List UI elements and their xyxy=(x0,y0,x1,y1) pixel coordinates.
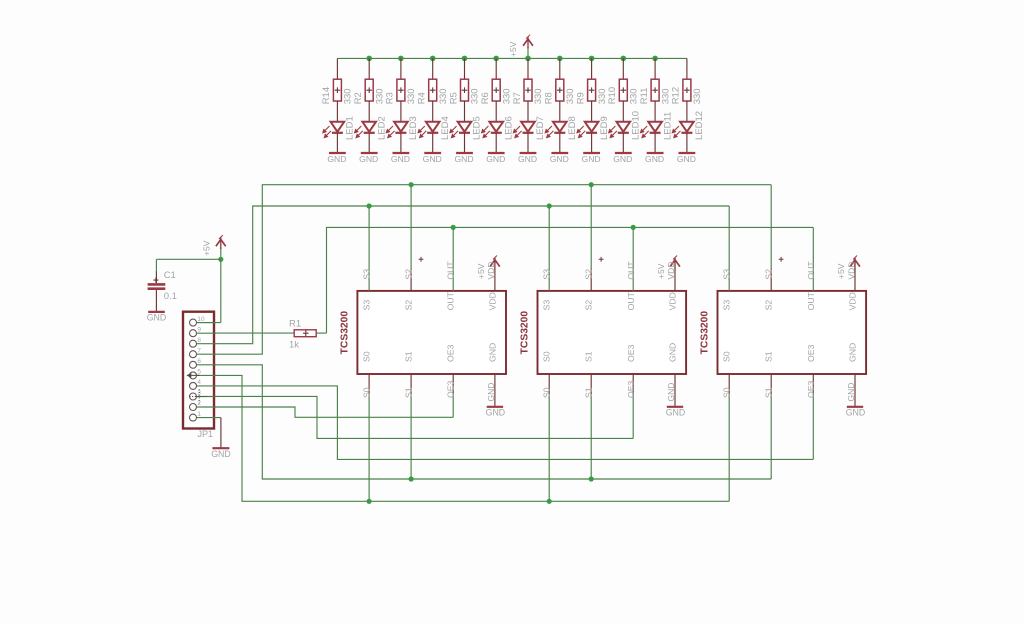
junction rail col9 xyxy=(589,56,595,62)
junction S3 bus U1 xyxy=(367,203,372,208)
pin OE3 stub U2 xyxy=(632,374,634,395)
svg-text:LED7: LED7 xyxy=(535,116,546,140)
svg-text:330: 330 xyxy=(501,88,512,104)
pin S2 stub U1 xyxy=(410,269,412,291)
pin S1 stub U2 xyxy=(590,374,592,395)
svg-text:S3: S3 xyxy=(542,269,552,280)
+5V supply symbol (U2 VDD) xyxy=(670,256,680,270)
svg-text:LED10: LED10 xyxy=(631,111,642,140)
ground GND (LED6) xyxy=(488,152,505,154)
wire S0 net U2 xyxy=(548,395,550,501)
svg-text:R14: R14 xyxy=(321,87,332,104)
svg-text:5: 5 xyxy=(197,369,201,376)
wire S1 net U3 xyxy=(770,395,772,479)
svg-text:S1: S1 xyxy=(764,351,774,362)
wire JP1 pin9 stub xyxy=(197,332,216,334)
LED LED6 xyxy=(482,122,504,138)
svg-text:S0: S0 xyxy=(542,387,552,398)
LED LED12 xyxy=(672,122,693,138)
svg-text:S0: S0 xyxy=(542,351,552,362)
wire LED8 to GND xyxy=(559,133,561,152)
junction rail col11 xyxy=(652,56,658,62)
svg-text:R4: R4 xyxy=(417,92,428,104)
LED LED7 xyxy=(513,122,534,138)
svg-text:R10: R10 xyxy=(607,87,618,104)
resistor R8 330 xyxy=(556,79,564,101)
pin cross marker S2 U1 xyxy=(419,257,424,262)
svg-text:R3: R3 xyxy=(385,92,396,104)
wire rail to R5 xyxy=(464,58,466,79)
wire rail to R12 xyxy=(686,58,688,79)
junction rail col8 xyxy=(557,56,563,62)
wire JP1 pin3 stub xyxy=(197,396,216,398)
svg-text:GND: GND xyxy=(454,154,473,164)
pin VDD stub U3 xyxy=(854,268,856,291)
svg-text:S1: S1 xyxy=(404,387,414,398)
svg-text:S3: S3 xyxy=(722,300,732,311)
svg-text:S3: S3 xyxy=(362,300,372,311)
pin S0 stub U1 xyxy=(368,374,370,395)
wire S3 pin U1 xyxy=(368,206,370,291)
wire LED10 to GND xyxy=(622,133,624,152)
pin S2 stub U3 xyxy=(770,269,772,291)
wire JP1 pin8 stub xyxy=(197,343,216,345)
wire JP1 pin6 stub xyxy=(197,364,216,366)
junction rail col7 xyxy=(525,56,531,62)
svg-text:GND: GND xyxy=(486,408,506,418)
svg-text:GND: GND xyxy=(677,154,696,164)
wire C1 top lead xyxy=(155,272,157,284)
pin GND stub U1 xyxy=(494,374,496,407)
wire +5V stub xyxy=(527,47,529,58)
pin S0 stub U3 xyxy=(728,374,730,395)
wire LED7 to GND xyxy=(527,133,529,152)
svg-text:LED5: LED5 xyxy=(472,116,483,140)
wire S1 net U2 xyxy=(590,395,592,479)
svg-text:OE3: OE3 xyxy=(446,380,456,398)
wire R3 to LED3 xyxy=(400,101,402,121)
svg-text:OUT: OUT xyxy=(806,261,816,280)
svg-text:+5V: +5V xyxy=(656,263,666,279)
svg-text:LED1: LED1 xyxy=(345,116,356,140)
svg-text:GND: GND xyxy=(848,343,858,362)
LED LED9 xyxy=(577,122,598,138)
JP1 pin 3 pad xyxy=(190,393,197,400)
svg-text:R12: R12 xyxy=(671,87,682,104)
wire S0 net U3 xyxy=(728,395,730,501)
ground GND (U3) xyxy=(847,406,863,408)
wire LED2 to GND xyxy=(368,133,370,152)
wire rail to R14 xyxy=(336,58,338,79)
pin S2 stub U2 xyxy=(590,269,592,291)
wire C1 top lead upper xyxy=(155,259,157,272)
svg-text:TCS3200: TCS3200 xyxy=(520,311,531,355)
svg-text:S0: S0 xyxy=(362,351,372,362)
svg-text:7: 7 xyxy=(197,347,201,354)
svg-text:+5V: +5V xyxy=(476,263,486,279)
pin OE3 stub U3 xyxy=(812,374,814,395)
svg-text:LED8: LED8 xyxy=(567,116,578,140)
resistor R4 330 xyxy=(429,79,437,101)
svg-text:330: 330 xyxy=(660,88,671,104)
junction S2 bus U2 xyxy=(589,182,594,187)
svg-text:LED3: LED3 xyxy=(408,116,419,140)
JP1 pin 5 pad xyxy=(190,372,197,379)
ground GND (LED9) xyxy=(583,152,600,154)
svg-text:GND: GND xyxy=(391,154,410,164)
svg-text:10: 10 xyxy=(197,316,205,323)
svg-text:S2: S2 xyxy=(764,300,774,311)
svg-text:S2: S2 xyxy=(584,300,594,311)
wire JP1 pin5 stub xyxy=(197,374,216,376)
wire +5V stub (JP1) xyxy=(220,247,222,259)
svg-text:330: 330 xyxy=(406,88,417,104)
svg-text:C1: C1 xyxy=(164,270,176,281)
svg-text:9: 9 xyxy=(197,326,201,333)
svg-text:LED12: LED12 xyxy=(694,111,705,140)
svg-text:330: 330 xyxy=(692,88,703,104)
JP1 pin 2 pad xyxy=(190,404,197,411)
cursor arrow at JP1 pin 5 xyxy=(186,373,199,378)
svg-text:LED11: LED11 xyxy=(662,112,673,140)
svg-text:8: 8 xyxy=(197,337,201,344)
svg-text:R11: R11 xyxy=(639,88,650,105)
svg-text:S2: S2 xyxy=(764,269,774,280)
wire JP1 pin2 stub xyxy=(197,406,216,408)
svg-text:1: 1 xyxy=(197,411,201,418)
ground GND (LED11) xyxy=(647,152,664,154)
ground GND (LED4) xyxy=(424,152,441,154)
wire rail to R10 xyxy=(622,58,624,79)
wire R2 to LED2 xyxy=(368,101,370,121)
+5V supply symbol (U1 VDD) xyxy=(490,256,500,270)
wire R11 to LED11 xyxy=(654,101,656,121)
svg-text:GND: GND xyxy=(550,154,569,164)
wire rail to R11 xyxy=(654,58,656,79)
wire rail to R9 xyxy=(591,58,593,79)
svg-text:GND: GND xyxy=(211,449,231,459)
JP1 pin 1 pad xyxy=(190,414,197,421)
junction S1 bus U2 xyxy=(589,476,594,481)
svg-text:GND: GND xyxy=(486,383,496,402)
wire R6 to LED6 xyxy=(495,101,497,121)
wire S1 net U1 xyxy=(410,395,412,479)
wire R5 to LED5 xyxy=(464,101,466,121)
junction S0 bus U1 xyxy=(367,499,372,504)
svg-text:OE3: OE3 xyxy=(446,344,456,362)
svg-text:GND: GND xyxy=(668,343,678,362)
junction rail col4 xyxy=(430,56,436,62)
svg-text:LED2: LED2 xyxy=(376,116,387,140)
svg-text:OUT: OUT xyxy=(446,291,456,310)
svg-text:GND: GND xyxy=(486,154,505,164)
wire LED3 to GND xyxy=(400,133,402,152)
IC U2 TCS3200 box xyxy=(538,291,687,374)
svg-text:R8: R8 xyxy=(544,92,555,104)
wire R1 to OUT bus xyxy=(316,332,326,334)
junction S0 bus U2 xyxy=(547,499,552,504)
svg-text:S1: S1 xyxy=(764,387,774,398)
ground GND (LED3) xyxy=(393,152,410,154)
junction S1 bus U1 xyxy=(409,476,414,481)
capacitor C1 0.1 xyxy=(148,278,166,289)
svg-text:VDD: VDD xyxy=(486,262,496,280)
wire OUT pin U2 xyxy=(632,227,634,291)
wire OUT pin U3 xyxy=(812,227,814,291)
wire S3 pin U3 xyxy=(728,206,730,291)
wire GND drop (JP1) xyxy=(220,418,222,448)
ground GND (LED5) xyxy=(456,152,473,154)
svg-text:TCS3200: TCS3200 xyxy=(700,311,711,355)
svg-text:330: 330 xyxy=(470,88,481,104)
junction rail col3 xyxy=(398,56,404,62)
wire +5V vertical (JP1) xyxy=(220,259,222,322)
LED LED8 xyxy=(545,122,566,138)
IC U1 TCS3200 box xyxy=(357,291,506,374)
connector JP1 box xyxy=(183,312,214,429)
svg-text:S3: S3 xyxy=(542,300,552,311)
wire net S2 bus (JP1 pin7) xyxy=(197,185,771,355)
wire net OUT bus xyxy=(327,227,814,333)
svg-text:330: 330 xyxy=(629,88,640,104)
svg-text:S2: S2 xyxy=(404,269,414,280)
svg-text:OUT: OUT xyxy=(626,291,636,310)
+5V supply symbol (U3 VDD) xyxy=(850,256,860,270)
svg-text:330: 330 xyxy=(343,88,354,104)
wire OE3 net U1 xyxy=(452,395,454,417)
+5V supply symbol (LED rail) xyxy=(523,35,533,49)
resistor R3 330 xyxy=(397,79,405,101)
pin cross marker S2 U2 xyxy=(599,257,604,262)
resistor R10 330 xyxy=(619,79,627,101)
resistor R2 330 xyxy=(365,79,373,101)
wire C1 to +5V junction xyxy=(156,258,220,260)
ground GND (JP1) xyxy=(212,447,229,449)
svg-text:VDD: VDD xyxy=(487,292,497,310)
svg-text:OE3: OE3 xyxy=(806,344,816,362)
wire rail to R7 xyxy=(527,58,529,79)
svg-text:LED4: LED4 xyxy=(440,116,451,140)
svg-text:GND: GND xyxy=(645,154,664,164)
pin GND stub U2 xyxy=(674,374,676,407)
svg-text:OUT: OUT xyxy=(626,261,636,280)
svg-text:OE3: OE3 xyxy=(626,344,636,362)
pin VDD stub U2 xyxy=(674,268,676,291)
svg-text:1k: 1k xyxy=(289,340,299,351)
wire rail to R8 xyxy=(559,58,561,79)
wire LED5 to GND xyxy=(464,133,466,152)
LED LED3 xyxy=(386,122,407,138)
svg-text:VDD: VDD xyxy=(846,262,856,280)
svg-text:GND: GND xyxy=(666,408,686,418)
ground GND (LED10) xyxy=(615,152,632,154)
pin S1 stub U1 xyxy=(410,374,412,395)
wire rail to R6 xyxy=(495,58,497,79)
svg-text:GND: GND xyxy=(846,383,856,402)
ground GND (LED12) xyxy=(679,152,696,154)
svg-text:GND: GND xyxy=(846,408,866,418)
svg-text:R2: R2 xyxy=(353,92,364,104)
ground GND (LED8) xyxy=(551,152,568,154)
resistor R5 330 xyxy=(461,79,469,101)
wire S2 net U1 xyxy=(410,185,412,269)
wire R9 to LED9 xyxy=(591,101,593,121)
wire JP1 pin9 to R1 xyxy=(197,332,294,334)
svg-text:S1: S1 xyxy=(584,387,594,398)
wire JP1 pin4 stub xyxy=(197,385,216,387)
resistor R11 330 xyxy=(651,79,659,101)
wire R4 to LED4 xyxy=(432,101,434,121)
svg-text:+5V: +5V xyxy=(508,41,518,57)
junction rail col10 xyxy=(621,56,627,62)
wire S2 net U2 xyxy=(590,185,592,269)
junction OUT bus U2 xyxy=(631,225,636,230)
svg-text:R7: R7 xyxy=(512,92,523,104)
ground GND (LED7) xyxy=(520,152,537,154)
cursor crosshair at JP1 pin 3 xyxy=(190,389,207,403)
wire R14 to LED1 xyxy=(336,101,338,121)
wire rail to R4 xyxy=(432,58,434,79)
svg-text:OUT: OUT xyxy=(446,261,456,280)
ground GND (LED1) xyxy=(329,152,346,154)
wire S2 net U3 xyxy=(770,185,772,269)
pin GND stub U3 xyxy=(854,374,856,407)
LED LED2 xyxy=(355,122,376,138)
svg-text:6: 6 xyxy=(197,358,201,365)
wire net S0 bus (JP1 pin5) xyxy=(197,375,729,501)
JP1 pin 9 pad xyxy=(190,330,197,337)
wire OE3 net U2 xyxy=(632,395,634,438)
wire OUT pin U1 xyxy=(452,227,454,291)
wire LED11 to GND xyxy=(654,133,656,152)
wire LED12 to GND xyxy=(686,133,688,152)
svg-text:S0: S0 xyxy=(722,387,732,398)
junction rail col6 xyxy=(493,56,499,62)
svg-text:GND: GND xyxy=(147,313,167,323)
svg-text:GND: GND xyxy=(487,343,497,362)
wire S3 pin U2 xyxy=(548,206,550,291)
wire LED4 to GND xyxy=(432,133,434,152)
LED LED10 xyxy=(609,122,630,138)
svg-text:VDD: VDD xyxy=(668,292,678,310)
wire OE3 net U3 xyxy=(812,395,814,459)
svg-text:4: 4 xyxy=(197,379,201,386)
pin VDD stub U1 xyxy=(494,268,496,291)
+5V supply symbol (JP1) xyxy=(216,235,226,249)
svg-text:JP1: JP1 xyxy=(198,429,214,439)
resistor R12 330 xyxy=(683,79,691,101)
junction OUT bus U1 xyxy=(451,225,456,230)
JP1 pin 7 pad xyxy=(190,351,197,358)
LED LED11 xyxy=(641,122,662,138)
svg-text:LED9: LED9 xyxy=(599,116,610,140)
svg-text:2: 2 xyxy=(197,400,201,407)
svg-text:0.1: 0.1 xyxy=(164,291,177,302)
wire R8 to LED8 xyxy=(559,101,561,121)
LED LED5 xyxy=(450,122,471,138)
resistor R7 330 xyxy=(524,79,532,101)
wire R12 to LED12 xyxy=(686,101,688,121)
svg-text:R6: R6 xyxy=(480,92,491,104)
wire net OE3-U2 (JP1 pin3) xyxy=(197,396,633,438)
svg-text:OUT: OUT xyxy=(806,291,816,310)
JP1 pin 8 pad xyxy=(190,340,197,347)
svg-text:GND: GND xyxy=(582,154,601,164)
wire +5V rail xyxy=(337,57,687,59)
svg-text:VDD: VDD xyxy=(666,262,676,280)
wire JP1 pin10 stub xyxy=(197,322,216,324)
svg-text:OE3: OE3 xyxy=(626,380,636,398)
wire C1 bottom lead xyxy=(155,290,157,312)
wire LED1 to GND xyxy=(336,133,338,152)
junction rail col5 xyxy=(462,56,468,62)
svg-text:330: 330 xyxy=(565,88,576,104)
wire JP1 pin10 to +5V xyxy=(197,322,221,324)
junction rail col2 xyxy=(366,56,372,62)
JP1 pin 6 pad xyxy=(190,361,197,368)
svg-text:S1: S1 xyxy=(584,351,594,362)
JP1 pin 10 pad xyxy=(190,319,197,326)
svg-text:LED6: LED6 xyxy=(503,116,514,140)
svg-text:GND: GND xyxy=(666,383,676,402)
pin S0 stub U2 xyxy=(548,374,550,395)
resistor R14 330 xyxy=(333,79,341,101)
ground GND (U2) xyxy=(667,406,683,408)
pin S1 stub U3 xyxy=(770,374,772,395)
svg-text:S3: S3 xyxy=(722,269,732,280)
JP1 pin 4 pad xyxy=(190,382,197,389)
wire rail to R2 xyxy=(368,58,370,79)
wire R7 to LED7 xyxy=(527,101,529,121)
svg-text:GND: GND xyxy=(613,154,632,164)
wire R10 to LED10 xyxy=(622,101,624,121)
ground GND (U1) xyxy=(487,406,503,408)
svg-text:R5: R5 xyxy=(448,92,459,104)
svg-text:330: 330 xyxy=(438,88,449,104)
LED LED1 xyxy=(323,122,344,138)
svg-text:S2: S2 xyxy=(584,269,594,280)
LED LED4 xyxy=(418,122,439,138)
svg-text:OE3: OE3 xyxy=(806,380,816,398)
pin OE3 stub U1 xyxy=(452,374,454,395)
resistor R9 330 xyxy=(588,79,596,101)
ground GND (C1) xyxy=(148,311,165,313)
wire JP1 pin7 stub xyxy=(197,353,216,355)
svg-text:S0: S0 xyxy=(722,351,732,362)
junction S2 bus U1 xyxy=(409,182,414,187)
svg-text:GND: GND xyxy=(518,154,537,164)
IC U3 TCS3200 box xyxy=(718,291,867,374)
svg-text:S2: S2 xyxy=(404,300,414,311)
svg-text:R9: R9 xyxy=(575,92,586,104)
svg-text:TCS3200: TCS3200 xyxy=(340,311,351,355)
wire JP1 pin1 to GND xyxy=(197,417,221,419)
svg-text:GND: GND xyxy=(359,154,378,164)
wire LED6 to GND xyxy=(495,133,497,152)
svg-text:330: 330 xyxy=(533,88,544,104)
svg-text:S1: S1 xyxy=(404,351,414,362)
ground GND (LED2) xyxy=(361,152,378,154)
svg-text:+5V: +5V xyxy=(836,263,846,279)
resistor R1 1k xyxy=(294,330,316,337)
svg-text:GND: GND xyxy=(327,154,346,164)
wire rail to R3 xyxy=(400,58,402,79)
svg-text:GND: GND xyxy=(423,154,442,164)
wire net S3 bus (JP1 pin8) xyxy=(197,206,729,344)
wire net OE3-U1 (JP1 pin2) xyxy=(197,407,453,417)
wire net S1 bus (JP1 pin6) xyxy=(197,365,771,479)
svg-text:+5V: +5V xyxy=(201,240,211,256)
